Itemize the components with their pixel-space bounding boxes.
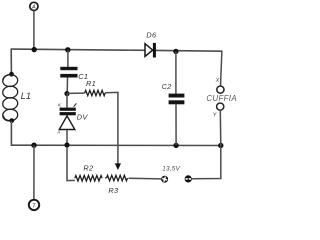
- wire minus to right rail: [192, 146, 221, 179]
- wire C2 bottom lead: [175, 104, 177, 145]
- svg-text:D6: D6: [146, 31, 157, 40]
- capacitor C1: [60, 67, 77, 78]
- diode D6: [145, 43, 156, 58]
- wire right rail bottom: [219, 110, 222, 145]
- node earth branch: [31, 143, 36, 148]
- svg-text:K: K: [58, 103, 62, 108]
- node DV/R1 junction: [64, 91, 69, 96]
- wire C1 top lead: [67, 50, 69, 67]
- terminal T earth: [29, 200, 39, 210]
- wire A to top rail: [33, 11, 35, 50]
- wire right rail top: [221, 51, 222, 86]
- svg-text:T: T: [32, 204, 36, 210]
- inductor L1: [2, 74, 18, 122]
- svg-text:A: A: [56, 130, 60, 135]
- svg-text:L1: L1: [21, 91, 31, 101]
- resistor R2: [75, 176, 102, 182]
- svg-text:R2: R2: [83, 163, 93, 172]
- node C1 branch junction: [65, 47, 70, 52]
- node DV/R2 junction on rail: [64, 142, 69, 147]
- wire top rail right segment: [156, 49, 222, 52]
- resistor R1: [85, 90, 105, 95]
- terminal Y: [217, 103, 224, 110]
- svg-text:DV: DV: [77, 113, 89, 122]
- node L1 bottom: [9, 118, 14, 123]
- wire C2 top lead: [175, 51, 177, 93]
- wire left rail top: [10, 49, 12, 75]
- resistor R3 trimmer: [107, 175, 128, 181]
- svg-text:13,5V: 13,5V: [162, 166, 180, 173]
- terminal A: [30, 2, 38, 10]
- svg-text:R1: R1: [86, 79, 96, 88]
- wire DV bottom lead: [66, 130, 68, 145]
- capacitor C2: [169, 94, 185, 105]
- wire left rail bottom: [10, 121, 12, 146]
- wire earth lead: [33, 145, 35, 200]
- svg-text:R3: R3: [108, 186, 118, 195]
- svg-text:C2: C2: [162, 82, 172, 91]
- wire DV top lead: [66, 94, 68, 108]
- node C2 top junction: [173, 49, 178, 54]
- terminal battery plus: [161, 176, 168, 183]
- svg-text:A: A: [31, 5, 36, 11]
- wire R2-R3 link: [105, 177, 107, 179]
- wire top rail left segment: [11, 49, 145, 50]
- svg-text:CUFFIA: CUFFIA: [206, 94, 237, 103]
- wire R1 to wiper: [105, 92, 118, 164]
- node C2 bottom junction: [173, 143, 178, 148]
- node antenna junction: [32, 47, 37, 52]
- varactor diode DV: [59, 108, 76, 130]
- svg-text:X: X: [215, 78, 220, 84]
- stray tick: [74, 103, 77, 106]
- wire R1 left lead: [67, 92, 85, 94]
- terminal X: [217, 86, 224, 93]
- svg-text:Y: Y: [213, 112, 217, 118]
- node L1 top: [9, 72, 14, 77]
- wiper arrowhead: [115, 163, 121, 170]
- wire C1 to DV node: [66, 78, 68, 94]
- wire R3 to plus terminal: [129, 177, 162, 180]
- wire R2 branch down: [67, 147, 75, 181]
- terminal battery minus: [185, 175, 192, 182]
- wire bottom rail: [11, 144, 220, 146]
- node bottom right corner: [218, 143, 223, 148]
